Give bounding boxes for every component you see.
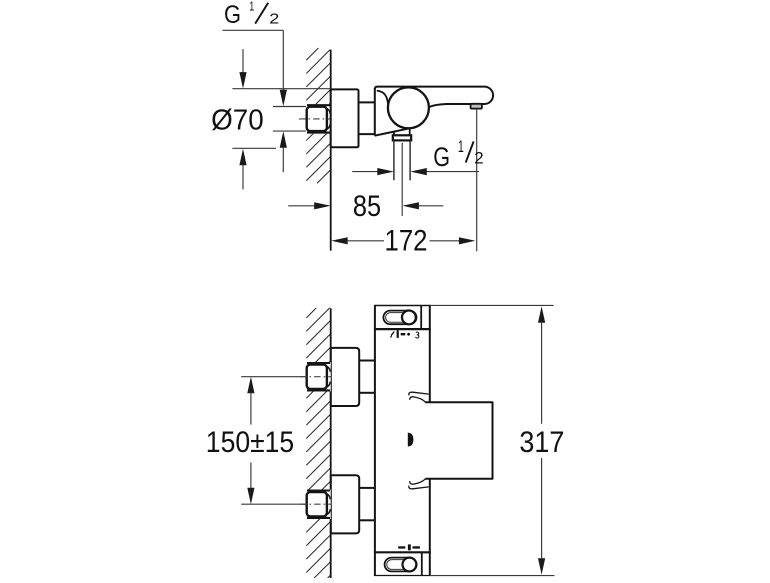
- svg-text:2: 2: [269, 10, 279, 27]
- svg-text:172: 172: [385, 224, 428, 257]
- svg-text:150±15: 150±15: [206, 426, 294, 459]
- svg-text:Ø70: Ø70: [211, 104, 264, 136]
- svg-text:G: G: [433, 142, 450, 172]
- svg-text:G: G: [224, 1, 241, 29]
- svg-text:317: 317: [519, 426, 564, 459]
- svg-text:85: 85: [353, 190, 381, 223]
- svg-text:1: 1: [458, 138, 464, 156]
- svg-text:1: 1: [249, 0, 254, 14]
- svg-text:2: 2: [474, 149, 483, 168]
